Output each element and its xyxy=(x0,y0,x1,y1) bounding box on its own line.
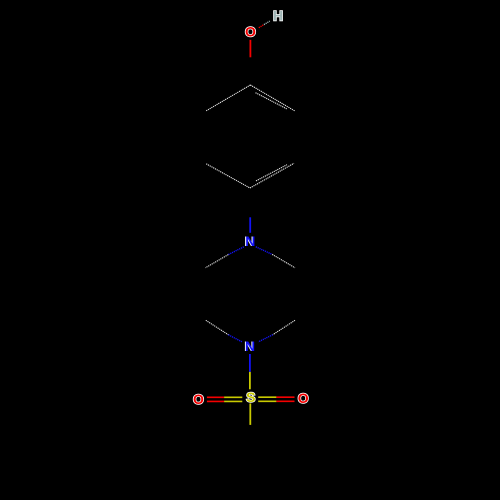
svg-text:O: O xyxy=(193,391,204,407)
bond O1-C1 (O half) xyxy=(249,40,251,58)
bond C4-N1 (N half) xyxy=(249,217,251,233)
bond N2-S1 (N half) xyxy=(249,354,251,372)
bond O1-H (O half) xyxy=(259,25,264,28)
bond S1=O2 line1 (S half) xyxy=(224,396,242,398)
bond N1-C7 (C half) xyxy=(205,255,228,268)
bond S1=O3 line1 (O half) xyxy=(276,396,294,398)
bond S1=O3 line2 (O half) xyxy=(276,400,294,402)
svg-text:S: S xyxy=(246,389,255,405)
bond N1-C8 (N half) xyxy=(256,247,272,255)
bond C1-C2 xyxy=(206,85,250,111)
bond C1=C6 outer xyxy=(250,85,294,111)
bond N1-C8 (C half) xyxy=(272,254,295,267)
bond N1-C7 (N half) xyxy=(228,247,244,255)
bond S1=O3 line2 (S half) xyxy=(258,400,276,402)
svg-text:N: N xyxy=(245,233,255,249)
bond S1=O3 line1 (S half) xyxy=(258,396,276,398)
bond C9-N2 (C half) xyxy=(206,320,229,335)
bond C4=C5 outer xyxy=(250,163,294,188)
bond S1=O2 line2 (O half) xyxy=(207,400,224,402)
bond O1-H (H half) xyxy=(264,21,270,25)
svg-text:N: N xyxy=(245,338,255,354)
bond C10-N2 (N half) xyxy=(258,335,273,342)
bond C1=C6 inner xyxy=(256,93,288,109)
bond S1=O2 line1 (O half) xyxy=(207,396,224,398)
svg-text:H: H xyxy=(273,8,283,24)
bond C3-C4 xyxy=(206,164,250,188)
svg-text:O: O xyxy=(245,24,256,40)
bond S1=O2 line2 (S half) xyxy=(224,400,242,402)
bond N2-S1 (S half) xyxy=(249,372,251,389)
bond C9-N2 (N half) xyxy=(228,335,242,342)
bond C4=C5 inner xyxy=(256,165,287,181)
svg-text:O: O xyxy=(298,390,309,406)
bond S1-C11 (S half) xyxy=(249,403,251,425)
bond C10-N2 (C half) xyxy=(273,320,295,334)
